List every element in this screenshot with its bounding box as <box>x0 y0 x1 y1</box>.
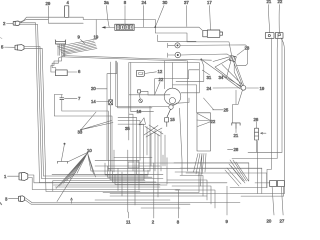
fan into right bundle <box>225 160 249 186</box>
wire 16 step to circle <box>141 91 165 95</box>
tall box right <box>197 113 211 151</box>
wire 17 leader <box>210 6 211 30</box>
wire 22 leader <box>155 82 160 95</box>
wire 2 leader <box>7 22 14 24</box>
right maze verticals <box>249 140 284 196</box>
arrow into 26 <box>261 132 267 134</box>
wire fuse feed with arrow <box>103 26 155 28</box>
wire through fuse14 <box>110 62 112 171</box>
wire 22 fan leaders <box>197 114 211 127</box>
label 3a <box>104 0 109 5</box>
label 11 bottom <box>126 219 131 224</box>
label 20 bottom <box>267 218 272 223</box>
label 10 <box>87 148 92 153</box>
wire 8 leader <box>124 6 126 25</box>
maze horizontals 2 <box>95 192 284 208</box>
wire 5 leader <box>5 46 16 48</box>
label 8 bottom <box>177 219 180 224</box>
wire 23 leader <box>237 50 244 55</box>
svg-text:25: 25 <box>224 108 229 113</box>
right maze horizontals <box>174 152 284 196</box>
lever bracket <box>58 161 68 163</box>
wire dot to coil <box>155 27 203 31</box>
ignition coil <box>203 30 223 37</box>
svg-text:29: 29 <box>46 1 51 6</box>
label 26 <box>254 117 259 122</box>
component flasher under 4 <box>65 6 69 17</box>
label 15 <box>170 117 175 122</box>
wire 130 elbow <box>131 63 154 112</box>
wire 7 leader <box>65 98 78 100</box>
wire 29 leader <box>48 6 83 23</box>
wire fan from node 33 <box>81 112 113 130</box>
indicator lamp 2 <box>175 52 181 58</box>
label 8 <box>124 0 127 5</box>
svg-text:21: 21 <box>267 0 272 4</box>
pendant component 15 <box>165 109 171 126</box>
label 29 <box>46 1 51 6</box>
wire pair from connector2 down <box>20 23 42 183</box>
wire 28 leader <box>228 148 233 150</box>
label 22 mid <box>159 77 164 82</box>
edge mark top left <box>0 38 2 39</box>
wire 24 leader <box>143 6 145 28</box>
wire top trunk A <box>20 17 156 22</box>
connector box 20 <box>270 180 277 186</box>
T component 21 <box>232 123 240 129</box>
wire 20 leader <box>97 88 108 90</box>
label 16 <box>137 109 142 114</box>
maze verticals upper <box>114 106 150 157</box>
wire pair from connector 1 <box>28 175 227 190</box>
label 33 <box>78 130 83 135</box>
wire lamp2 <box>168 53 230 57</box>
bundle horizontal 171 <box>91 170 150 172</box>
fan node 10 <box>87 152 89 154</box>
wire switch22 down curved <box>281 38 285 194</box>
wire step 85 <box>173 85 197 113</box>
connector 2 <box>13 21 20 26</box>
connector 1 <box>19 172 28 180</box>
label 22 top right <box>278 0 283 4</box>
svg-text:11: 11 <box>126 219 131 224</box>
label 17 <box>207 0 212 5</box>
connector box 27 <box>278 180 285 186</box>
svg-text:17: 17 <box>207 0 212 5</box>
wire 117 elbow <box>118 63 153 108</box>
capacitor 7 <box>60 98 64 100</box>
wire drop 9 <box>226 186 228 215</box>
wire 25 leader <box>213 109 223 111</box>
wire 3a leader <box>107 6 110 28</box>
svg-text:14: 14 <box>91 99 96 104</box>
label 19 fan <box>94 34 99 39</box>
switch box 22 <box>275 33 283 39</box>
svg-text:24: 24 <box>142 0 147 5</box>
wire lamp1 <box>168 43 248 65</box>
wire 6 leader <box>67 71 77 73</box>
label 22 tall box <box>211 119 216 124</box>
wire fan from connector 9 <box>58 40 98 55</box>
svg-text:23: 23 <box>245 46 250 51</box>
label 25 <box>224 108 229 113</box>
svg-text:19: 19 <box>260 86 265 91</box>
label 35 <box>125 126 130 131</box>
label 6 <box>78 69 81 74</box>
svg-text:37: 37 <box>184 0 189 5</box>
svg-text:35: 35 <box>125 126 130 131</box>
wire circle top <box>165 61 173 89</box>
svg-text:22: 22 <box>278 0 283 4</box>
headlamp circle <box>164 88 181 105</box>
label 28 <box>234 147 239 152</box>
wire bracket to fan <box>68 153 88 163</box>
label 3 <box>5 197 8 202</box>
wire fan bundle riser <box>93 20 96 40</box>
svg-text:15: 15 <box>170 117 175 122</box>
svg-text:26: 26 <box>254 117 259 122</box>
wire capacitor tail <box>62 100 109 171</box>
wire box20 drop <box>272 187 274 215</box>
wire 16 stem <box>139 93 140 99</box>
stepped wire 22 right <box>155 70 199 95</box>
wire box27 drop <box>281 187 283 215</box>
small circle under lamp <box>169 105 173 109</box>
indicator lamp 1 <box>175 43 180 48</box>
label 20 <box>91 86 96 91</box>
arrowhead fuse feed <box>102 26 106 28</box>
label 21 top right <box>267 0 272 4</box>
wire top trunk B <box>20 19 156 26</box>
wire pair from connector 3 <box>25 198 241 204</box>
right nested corners <box>167 172 215 208</box>
fan from connector 23 to node <box>213 57 244 89</box>
wire 115 elbow <box>116 61 169 107</box>
svg-text:27: 27 <box>280 218 285 223</box>
vertical wire 187 <box>186 61 188 171</box>
connector 9 comb <box>55 40 66 44</box>
label 27 bottom <box>280 218 285 223</box>
wire mid trunk pair <box>63 56 212 61</box>
small box 16 <box>138 90 141 93</box>
fuse box <box>115 24 134 30</box>
wire 1 leader <box>8 175 20 177</box>
connector 9 pins <box>58 44 65 57</box>
label 14 <box>91 99 96 104</box>
wire 12 leader <box>145 72 156 74</box>
label 1 <box>4 174 7 179</box>
svg-text:20: 20 <box>91 86 96 91</box>
up arrow <box>70 198 72 203</box>
node 33 <box>80 129 82 131</box>
svg-text:22: 22 <box>211 119 216 124</box>
wire 21 leader <box>235 129 237 133</box>
big box <box>129 63 200 141</box>
lever switch dot <box>64 143 66 145</box>
drop wires to bottom labels <box>129 190 179 218</box>
maze box <box>128 162 139 168</box>
wire 26 leader <box>256 122 258 129</box>
connector 5 <box>15 45 24 51</box>
headlamp bulb <box>169 98 175 104</box>
label 9 bottom <box>226 219 229 224</box>
label 24 mid <box>207 86 212 91</box>
svg-text:34: 34 <box>219 75 224 80</box>
wire 34 marks <box>225 76 227 79</box>
wire 3 leader <box>9 198 19 200</box>
svg-text:30: 30 <box>163 0 168 5</box>
fan 10 lines down-left <box>56 153 96 202</box>
label 21 mid <box>234 133 239 138</box>
connector 3 <box>19 196 25 202</box>
wire pair from connector5 <box>24 46 46 191</box>
label 5 <box>1 45 4 50</box>
wire 20 vertical <box>107 61 117 160</box>
label 30 <box>163 0 168 5</box>
label 24 top <box>142 0 147 5</box>
wire loop 7 <box>54 95 112 172</box>
horn component 12 <box>137 70 145 76</box>
wire under circle right <box>173 98 189 106</box>
maze horizontals <box>95 158 262 169</box>
wire 9 leader <box>81 40 86 44</box>
svg-text:22: 22 <box>159 77 164 82</box>
lever arm <box>61 144 64 162</box>
wire into circle left <box>129 94 170 96</box>
wire trunk diagonals to node 34 <box>176 59 227 81</box>
staircase verticals mid <box>151 130 165 171</box>
label 23 <box>245 46 250 51</box>
wire 19 leader <box>246 87 259 89</box>
wire 37 leader <box>186 6 188 27</box>
wire 24 leader <box>213 87 241 89</box>
bundle horizontals left <box>40 174 168 191</box>
svg-text:3a: 3a <box>104 0 109 5</box>
junction node <box>154 26 156 28</box>
svg-text:C2: C2 <box>138 71 144 76</box>
wire switch22 down b <box>281 38 283 152</box>
label 31 <box>207 75 212 80</box>
relay box 6 <box>56 70 68 76</box>
label 9 <box>78 34 81 39</box>
diagonal to 25 <box>204 98 214 110</box>
fuse 14 box with X <box>109 100 113 105</box>
broom under tall box <box>194 153 207 186</box>
svg-text:21: 21 <box>234 133 239 138</box>
label 34 <box>219 75 224 80</box>
connector 23 hatched <box>229 55 236 61</box>
wire switch21 down a <box>267 38 271 188</box>
node circle 19 <box>241 85 246 90</box>
svg-text:12: 12 <box>158 69 163 74</box>
label 19 right <box>260 86 265 91</box>
stepped wire from junction to connector 23 <box>155 27 231 55</box>
wire from 21 to switch box <box>269 5 270 33</box>
bulb 16 <box>139 99 143 103</box>
staircase elbows <box>118 114 147 174</box>
wire switch22 down a <box>276 38 279 158</box>
fuse component 26 <box>255 128 259 140</box>
wire relay steps <box>51 56 64 72</box>
svg-text:20: 20 <box>267 218 272 223</box>
svg-text:33: 33 <box>78 130 83 135</box>
label 4 <box>67 0 70 5</box>
wire 30 leader <box>156 6 164 27</box>
wire 14 leader <box>97 101 109 103</box>
switch box 21 <box>265 33 274 39</box>
label 2 <box>3 21 6 26</box>
label 7 <box>78 96 81 101</box>
wire from 22 to switch box <box>278 5 280 33</box>
wire under coil <box>158 35 197 41</box>
maze verticals <box>114 155 167 212</box>
wire 31 leader <box>202 70 209 75</box>
svg-text:28: 28 <box>234 147 239 152</box>
svg-text:24: 24 <box>207 86 212 91</box>
label 2 bottom <box>152 219 155 224</box>
wire node down stepped <box>233 90 243 123</box>
junction dot on trunk <box>200 59 202 61</box>
crossing diagonals near 35 <box>139 118 163 137</box>
wire long slant from lamp <box>180 108 183 175</box>
label 37 <box>184 0 189 5</box>
label 12 <box>158 69 163 74</box>
maze U cluster <box>105 163 160 184</box>
svg-text:31: 31 <box>207 75 212 80</box>
edge mark bottom left <box>0 203 2 205</box>
